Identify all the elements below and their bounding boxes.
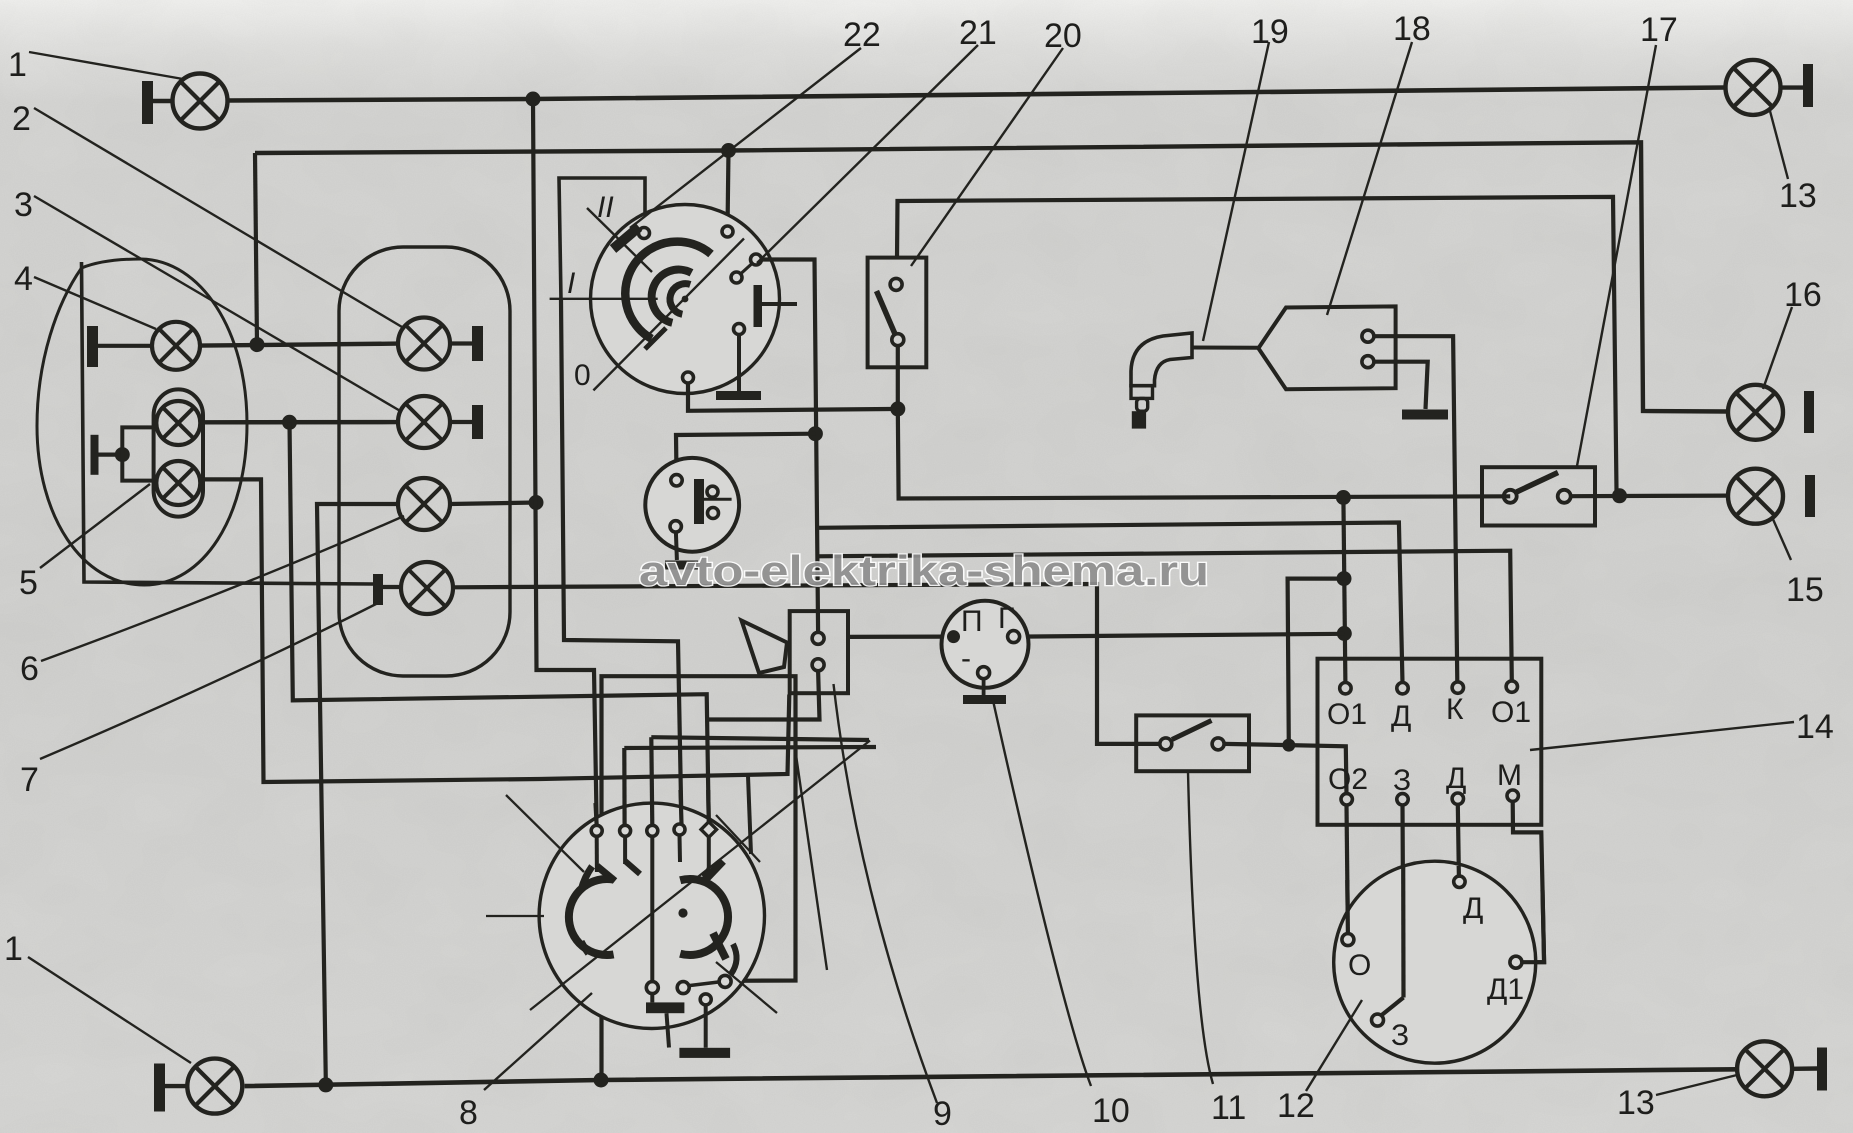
wire P7 to ground — [737, 335, 741, 392]
pin O2 — [1341, 794, 1352, 805]
svg-text:О2: О2 — [1328, 763, 1368, 796]
svg-text:16: 16 — [1784, 276, 1822, 314]
svg-text:Д: Д — [1463, 892, 1483, 925]
pin bottom C hook — [719, 975, 731, 987]
component spark plug connector 19 — [1131, 333, 1259, 429]
contact blade on 0 line — [645, 328, 666, 349]
ignition switch box 22 — [559, 178, 645, 300]
socket bottom-left pin — [670, 521, 681, 532]
relay20 blade — [877, 291, 896, 334]
svg-text:13: 13 — [1779, 177, 1817, 215]
lamp 3 — [398, 396, 450, 448]
op region: ignition switch circle 22 — [550, 205, 898, 633]
node junction dot bus top — [808, 426, 823, 441]
wire h_c horizontal to east — [624, 747, 876, 748]
pin PG bottom — [978, 667, 990, 679]
wire PG bottom pin stub — [982, 679, 986, 696]
wire button9 to PG — [848, 634, 948, 639]
wire h_d horizontal — [651, 737, 869, 740]
circle8 outer fragment SE — [713, 933, 726, 959]
socket inner line — [704, 498, 732, 501]
pin p2 — [620, 825, 631, 836]
pin O — [1342, 934, 1354, 946]
wire plug to horn — [1192, 346, 1259, 350]
wire vertical x255 down to lamp row A — [255, 153, 257, 345]
lamp 13 top-right — [1726, 60, 1781, 115]
lamp 2 terminal bar — [472, 326, 483, 361]
leader 21 — [757, 45, 978, 263]
wire box22 left edge down to h1 and circle8 pin4 — [561, 300, 682, 826]
leader 12 — [1306, 1000, 1362, 1091]
wire bus x536 from top wire dot down, jog to circle8 pin1 — [533, 99, 597, 826]
circle8 outer fragment NE — [704, 861, 723, 881]
pin P6 — [683, 372, 694, 383]
wire lamp6 east to bus junction — [450, 503, 536, 505]
wire D pin down — [1458, 804, 1459, 876]
pin PG left solid — [947, 630, 960, 643]
lamp 3 terminal bar — [472, 405, 483, 439]
contact blade near II — [613, 227, 639, 249]
wire p3 feed corner — [651, 737, 652, 825]
node junction dot bottom left — [318, 1077, 333, 1092]
svg-text:-: - — [961, 642, 971, 675]
socket inner pin a — [707, 486, 718, 497]
wire p1 feed overlay — [596, 803, 597, 826]
pin p3 — [647, 825, 658, 836]
pin K — [1452, 682, 1463, 693]
svg-text:10: 10 — [1092, 1092, 1130, 1130]
pin P4 — [731, 272, 742, 283]
svg-text:1: 1 — [8, 46, 27, 84]
wire top main from lamp 1 to lamp 13 — [228, 88, 1726, 101]
wire circle8 wrap path bottom dot up east down to hook pin — [602, 676, 796, 1080]
lamp 13 terminal bar — [1803, 64, 1813, 107]
circle8 outer fragment SW — [581, 942, 588, 954]
pin stubs — [595, 836, 599, 872]
pin Z — [1397, 794, 1408, 805]
center dot — [678, 908, 687, 917]
pin horn upper — [1362, 330, 1374, 342]
svg-text:Д: Д — [1391, 700, 1411, 733]
svg-text:I: I — [567, 267, 575, 300]
svg-text:9: 9 — [933, 1095, 952, 1133]
svg-text:17: 17 — [1640, 11, 1678, 49]
pin D1 — [1510, 956, 1522, 968]
pivot dot — [682, 296, 689, 303]
pin M — [1507, 790, 1518, 801]
wire headlight chord down to lamp7 bar — [82, 262, 374, 584]
wire row A lamp4 to lamp2 — [200, 344, 398, 346]
circle8 outer fragment NW — [581, 866, 592, 890]
ground bar socket — [665, 561, 698, 570]
ground bar PG — [963, 695, 1006, 704]
pin bottom D — [700, 994, 711, 1005]
circle8 SE hook — [731, 944, 737, 974]
component 4-pin socket — [645, 458, 739, 565]
svg-text:3: 3 — [14, 186, 33, 224]
leader 1 bottom — [28, 957, 191, 1063]
node junction dot lamp5 terminal — [115, 447, 130, 462]
svg-text:15: 15 — [1786, 571, 1824, 609]
wire P6 down and east to relay20 junction — [688, 383, 898, 411]
svg-text:II: II — [597, 191, 614, 224]
ignition small arc — [670, 284, 690, 315]
leader 13 top — [1770, 111, 1788, 179]
pin O1 left — [1340, 683, 1351, 694]
circle8 inner right C arc — [680, 879, 728, 955]
component distributor circle 12 — [1334, 801, 1544, 1063]
svg-text:11: 11 — [1211, 1089, 1246, 1127]
component horn 18 — [1258, 306, 1457, 682]
wire bar to lamp7 — [383, 585, 401, 589]
node junction dot O2 path — [1282, 739, 1295, 752]
component relay 11 — [1136, 715, 1249, 771]
wire p4 feed overlay — [681, 790, 682, 824]
leader 3 — [34, 196, 402, 412]
capacitor bar symbol — [754, 285, 763, 327]
pin p4 — [674, 824, 685, 835]
leader 22 — [630, 48, 861, 228]
wire lamp13 to bar — [1781, 85, 1805, 89]
node junction dot under relay20 — [890, 401, 905, 416]
pin bottom A — [646, 982, 658, 994]
wire lamp6 west drop to bottom wire — [317, 504, 398, 1081]
svg-text:7: 7 — [20, 761, 39, 799]
pin D12 — [1454, 876, 1465, 887]
wire lamp7 row long east to relay11 riser — [453, 584, 1160, 744]
pin switch17 left — [1504, 490, 1517, 503]
wire socket bottom pin to ground — [676, 532, 677, 560]
svg-text:21: 21 — [959, 14, 997, 52]
pin P1 — [639, 228, 650, 239]
svg-text:4: 4 — [14, 260, 33, 298]
wire relay20 bottom to junction — [896, 346, 900, 409]
wire bar to junction — [99, 453, 123, 457]
wire stub to housing rim — [748, 776, 751, 854]
leader 15 — [1772, 517, 1791, 560]
pin Ptop — [722, 226, 733, 237]
leader 19 — [1203, 42, 1269, 341]
pin relay20 bottom — [892, 334, 904, 346]
wire stadium lower filament jog down and east — [201, 479, 790, 782]
pin relay20 top — [890, 278, 902, 290]
lamp 7 — [401, 562, 453, 614]
leader 6 — [41, 516, 404, 661]
pin Z — [1372, 1014, 1384, 1026]
pin p1 — [591, 825, 602, 836]
leader 7 — [40, 602, 380, 759]
button speaker triangle — [742, 621, 788, 674]
component connector PG 10 — [848, 601, 1344, 700]
leader 16 — [1763, 307, 1792, 389]
lamp 5 upper filament — [156, 401, 200, 445]
socket inner bar — [694, 479, 704, 524]
node junction dot O1 bus at socket wire — [1337, 626, 1352, 641]
wire bus west to socket top pin — [676, 434, 815, 475]
lamp 5 stadium outline — [154, 389, 203, 516]
svg-text:О1: О1 — [1491, 696, 1531, 729]
svg-text:5: 5 — [19, 564, 38, 602]
wire button bottom pin west to p5 feed — [706, 671, 820, 720]
wire O2 to O pin — [1347, 805, 1348, 934]
leader 18 — [1327, 42, 1412, 315]
wire drop to ignition top pin — [728, 151, 729, 230]
svg-text:13: 13 — [1617, 1084, 1655, 1122]
wire Z pin down — [1381, 805, 1404, 1016]
pin D top — [1397, 683, 1408, 694]
leader 5 — [40, 484, 150, 568]
lamp 1 top-left — [173, 74, 228, 129]
svg-text:П: П — [961, 605, 983, 638]
switch17 blade — [1517, 473, 1559, 493]
wire relay11 right pin to O2 junction — [1224, 744, 1289, 745]
svg-text:О1: О1 — [1327, 698, 1367, 731]
pin bottom B — [677, 982, 689, 994]
svg-text:2: 2 — [12, 100, 31, 138]
wire junction down and east to switch 17 — [898, 409, 1510, 499]
pin button bottom — [812, 659, 824, 671]
wire from O1 bus west then down to O2 junction — [1288, 579, 1344, 746]
thin position line sw-ne — [530, 741, 870, 1011]
svg-text:6: 6 — [20, 650, 39, 688]
pin P7 — [734, 324, 745, 335]
wire horn lower pin to ground — [1374, 362, 1428, 409]
lamp 1 bottom-left — [154, 1064, 165, 1112]
node junction dot on top wire — [526, 92, 541, 107]
leader 8 — [484, 993, 592, 1090]
component switch 17 — [1482, 467, 1728, 525]
component relay 20 — [868, 258, 1511, 505]
wire bar to lamp4 — [98, 344, 152, 348]
ground bar horn — [1402, 410, 1448, 420]
svg-text:14: 14 — [1796, 708, 1834, 746]
wire O2 path east and down to pin — [1289, 745, 1347, 793]
lamp 4 terminal bar — [87, 326, 98, 367]
ground bar ignition — [716, 391, 761, 400]
pin relay11 left — [1160, 738, 1172, 750]
thin line near button — [796, 755, 827, 970]
node junction dot row B — [282, 415, 297, 430]
node junction dot bottom mid — [594, 1073, 609, 1088]
svg-text:0: 0 — [574, 359, 591, 392]
node junction dot lamp6 bus — [529, 495, 544, 510]
ignition inner thick arc — [652, 270, 692, 323]
wire bracket to both filaments — [122, 427, 153, 480]
svg-text:М: М — [1497, 759, 1522, 792]
lamp 2 — [398, 318, 450, 370]
lamp 15 — [1728, 469, 1783, 524]
svg-text:12: 12 — [1277, 1087, 1315, 1125]
lamp 1 terminal bar top-left — [142, 81, 153, 124]
wire branch D feed — [816, 523, 1402, 683]
wire row B stadium to lamp3 — [201, 420, 399, 425]
component light switch circle 8 — [486, 737, 876, 1058]
wire row B drop down and long east to circle8 pin5 — [290, 422, 709, 826]
leader 20 — [911, 48, 1063, 266]
wire lamp1 bar to lamp — [153, 99, 173, 103]
node junction dot ignition feed — [721, 143, 736, 158]
wire P3 east and down the bus to horn button — [762, 260, 819, 633]
svg-text:З: З — [1391, 1019, 1409, 1052]
relay11 blade — [1172, 721, 1212, 740]
pin horn lower — [1362, 356, 1374, 368]
wire horn upper pin east down to K pin of box14 — [1374, 336, 1457, 682]
circle8 inner left C arc — [569, 879, 614, 955]
lamp 7 terminal bar — [373, 574, 383, 605]
node junction dot row A — [250, 337, 265, 352]
ignition outer thick arc — [625, 242, 711, 339]
wire p2 feed: h_c corner down — [622, 748, 626, 826]
lamp 16 terminal bar — [1804, 391, 1814, 433]
pin relay11 right — [1212, 738, 1224, 750]
lamp 13 bottom-right — [1737, 1041, 1792, 1096]
svg-text:19: 19 — [1251, 13, 1289, 51]
leader 9 — [834, 684, 938, 1103]
ground bar under pin B — [679, 1048, 730, 1058]
thin position line west — [486, 915, 544, 917]
leader 11 — [1188, 772, 1213, 1084]
pin PG right — [1008, 631, 1020, 643]
wire p5 feed overlay — [706, 790, 711, 824]
wire relay20 top riser and long line to switch17 drop — [897, 197, 1620, 496]
wire M pin jog down to D1 — [1513, 801, 1544, 962]
wire lamp2 to bar — [450, 341, 473, 345]
pin switch17 right — [1558, 490, 1571, 503]
terminal bar under pin A — [646, 1002, 684, 1013]
svg-text:З: З — [1393, 764, 1411, 797]
svg-text:Г: Г — [998, 602, 1014, 635]
wire switch17 to lamp15 — [1571, 494, 1728, 499]
wire I position line — [550, 298, 658, 300]
component box 14 — [1318, 659, 1542, 825]
lamp 16 — [1728, 385, 1783, 440]
svg-text:Д1: Д1 — [1487, 973, 1524, 1006]
leader 2 — [34, 108, 402, 327]
leader 14 — [1530, 722, 1794, 750]
wire 0 position line — [593, 239, 744, 391]
svg-text:8: 8 — [459, 1094, 478, 1132]
lamp 4 — [152, 322, 200, 370]
lamp 15 terminal bar — [1805, 475, 1815, 517]
socket top-left pin — [671, 475, 682, 486]
svg-text:1: 1 — [4, 930, 23, 968]
lamp 6 — [398, 478, 450, 530]
pin D bottom — [1452, 793, 1463, 804]
node junction dot right of switch17 — [1612, 488, 1627, 503]
pin button top — [812, 632, 824, 644]
svg-text:20: 20 — [1044, 17, 1082, 55]
leader 10 — [992, 696, 1091, 1086]
leader 4 — [34, 277, 156, 329]
socket inner pin b — [708, 508, 719, 519]
leader 17 — [1577, 45, 1656, 466]
lamp 5 lower filament — [156, 461, 200, 505]
pin O1 right — [1506, 681, 1517, 692]
wire PG east to O1 bus — [1020, 634, 1345, 637]
svg-text:18: 18 — [1393, 10, 1431, 48]
lamp 5 terminal bar — [91, 435, 99, 475]
wire branch O1 right feed — [817, 551, 1512, 681]
svg-text:К: К — [1446, 693, 1464, 726]
wire lamp3 to bar — [450, 420, 473, 424]
leader 13 bottom — [1656, 1075, 1737, 1095]
wire bottom main — [245, 1069, 1737, 1092]
pin p5 — [701, 822, 717, 838]
svg-text:22: 22 — [843, 16, 881, 54]
headlight ellipse — [37, 259, 247, 585]
wire O1 left bus from dot down to box14 — [1343, 498, 1345, 683]
wire II position line — [587, 208, 652, 272]
cluster rounded rectangle — [339, 247, 510, 676]
pin P3 — [751, 254, 762, 265]
wire P4 to P3 link — [741, 264, 752, 274]
component horn button 9 — [706, 611, 848, 719]
svg-text:О: О — [1348, 949, 1371, 982]
node junction dot O1 bus top — [1336, 490, 1351, 505]
thin position line nw-se — [506, 795, 584, 872]
wire second top line to lamp 16 — [255, 142, 1728, 411]
svg-text:avto-elektrika-shema.ru: avto-elektrika-shema.ru — [639, 547, 1209, 594]
leader 1 top — [29, 52, 183, 79]
node junction dot O1 bus mid — [1337, 571, 1352, 586]
svg-text:Д: Д — [1446, 762, 1466, 795]
wire overlays entering circle12 — [1345, 880, 1350, 934]
